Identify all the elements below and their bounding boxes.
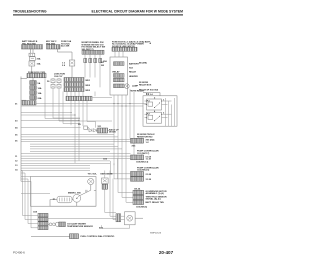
bundle 2 labels [15,104,18,143]
svg-text:5A: 5A [38,82,41,85]
svg-text:C08 (MIC13): C08 (MIC13) [136,162,149,164]
relay RL2 [114,70,137,77]
fuse chain F6b [57,79,61,88]
svg-text:BATTERY: BATTERY [129,63,139,66]
connector CN7 row1 [64,78,91,82]
emergency switch enclosure [31,177,97,207]
wires to governor connectors [118,193,133,203]
wire plug down [105,171,116,217]
vertical trunk wires mid [114,95,126,202]
connector CN9 [98,126,120,133]
buzzer box U3 [125,212,136,225]
svg-text:20A: 20A [38,97,42,100]
svg-text:MD2: MD2 [86,85,91,87]
connector CN14 [133,187,144,194]
dash marks [85,190,88,192]
connector CN5 [27,73,46,77]
diode D3 [94,129,97,132]
relay RL1 [114,62,140,66]
relay pin labels [154,98,165,115]
sensor ST1 label [67,222,93,227]
connector CN4 fuse box [112,47,137,51]
CN4 pin wires down [115,51,123,57]
svg-text:CN-24: CN-24 [134,187,141,190]
relay K2 [147,112,162,123]
terminal T1 [49,222,59,226]
wire buzzer bottom [102,225,130,228]
wire stubs from CN1 down [31,49,34,53]
svg-text:KEROSENE: KEROSENE [101,174,114,176]
wire stubs fuse stack [32,85,34,101]
wire solenoid up [90,185,92,191]
svg-text:20-407: 20-407 [159,250,174,255]
connector CN16 [133,200,144,204]
svg-text:LAMP: LAMP [132,84,139,87]
relay K1 [147,99,162,110]
svg-text:TROUBLESHOOTING: TROUBLESHOOTING [13,10,47,14]
svg-text:ELECTRICAL CIRCUIT DIAGRAM FOR: ELECTRICAL CIRCUIT DIAGRAM FOR W MODE SY… [92,10,184,14]
wires into bottom stack [23,216,39,228]
connector pin b4 [99,58,108,62]
wire switch bottom [50,191,96,207]
connector CN6 [22,101,36,105]
CN12 label [146,174,152,181]
row two wire [31,235,70,237]
CN15 label [136,196,167,208]
svg-text:31-38: 31-38 [146,179,152,181]
fuse F1 [29,61,41,66]
fuse box label [112,40,151,47]
svg-text:PC400-6: PC400-6 [13,251,25,255]
connector pin b3 [94,58,97,62]
wire bundle 2 [21,135,131,152]
svg-text:C06 C07: C06 C07 [54,76,63,78]
wire bundle 4 [21,176,31,178]
svg-text:30A: 30A [37,58,41,61]
connector CN1 battery relay [22,45,43,49]
svg-text:ASSEMBLY (1)-(6): ASSEMBLY (1)-(6) [146,192,164,195]
CN30 pin wires down [71,101,96,164]
wire buzzer out [135,217,143,219]
connector CN17 [38,213,48,217]
svg-text:MD1: MD1 [86,80,91,82]
connector CN7 row3 [64,88,91,92]
connector pin b2 [89,58,92,62]
resistor R1 [53,196,72,203]
svg-text:TVC SOL: TVC SOL [88,174,98,176]
svg-text:RESISTOR R02: RESISTOR R02 [137,137,153,139]
wire D1 to CN7 [71,66,73,78]
diode D2 [89,129,92,132]
tall box left label [101,62,105,67]
connector CN11 [131,151,160,164]
plug P1 [102,184,107,189]
connector CN19 [38,222,48,226]
wire to emergency switch row [21,193,50,195]
connector CN13 [131,177,144,182]
svg-text:SWP02123: SWP02123 [150,233,162,235]
svg-text:RELAY: RELAY [113,70,121,73]
svg-text:RELAY BOX: RELAY BOX [139,83,152,86]
wire from CN2 down and right [58,49,73,60]
CN7 title [54,74,65,78]
horn HN1 [124,84,144,93]
sensor row wire [48,223,49,225]
CN3 pin wires down [85,54,100,58]
relay RL3 [114,75,139,82]
diode D1 [69,60,75,66]
elbow wires into CN12 [111,156,131,179]
svg-text:EMERG. SW.: EMERG. SW. [68,192,81,194]
key switch side note [61,40,72,47]
svg-text:TEMPERATURE SENSOR: TEMPERATURE SENSOR [67,225,93,228]
left bus wire [20,77,22,182]
svg-text:BATT. RELAY TML: BATT. RELAY TML [146,201,165,204]
connector pin b1 [84,58,87,62]
svg-text:11-18: 11-18 [146,159,152,161]
connector CN15 [133,195,144,199]
relay pin dots [146,101,162,119]
relay unit internal wires [162,98,175,126]
connector CN10 [131,134,156,143]
connector CN21 [59,222,66,227]
header rule [13,14,183,15]
wires CN23 to buzzer [121,216,125,219]
connector CN12 [131,167,160,176]
fuse F5 [30,96,42,100]
solenoid label [88,174,98,176]
svg-text:DIODE: DIODE [109,132,116,134]
branch wires from bus [21,113,81,128]
wire resistor leads [50,200,73,207]
svg-text:C02 (MIC21): C02 (MIC21) [137,170,150,172]
connector CN3 monitor panel [82,50,104,54]
vertical trunk wires right of relay box [130,89,134,156]
CN11 label [146,156,152,160]
connector CN30 wide [66,96,92,100]
wire to relay unit top [143,93,160,97]
D1 side label [62,63,66,68]
key switch label [46,41,57,45]
fuse F2 [30,81,41,85]
relay unit label [139,82,159,92]
fuse chain F6a [51,79,55,88]
CN14 label [146,191,167,195]
relay box outline U1 [110,57,128,95]
relay unit outline U2 [143,96,177,126]
junction dots [70,103,130,121]
connector CN20 [38,226,48,230]
svg-text:B6 (M8): B6 (M8) [139,62,147,64]
svg-text:RELAY: RELAY [129,70,137,73]
svg-text:10A: 10A [38,87,42,90]
mode relay MR1 [102,178,109,183]
connector CN22 [70,234,79,239]
wire bundle 1 [21,97,147,106]
relay unit pin ticks [145,101,147,118]
staircase wires from CN5 branch [45,78,112,124]
svg-text:ACC BR: ACC BR [61,45,70,48]
svg-text:C09 (MIC5): C09 (MIC5) [136,207,147,209]
rotary switch SW1 [73,194,81,202]
connector CN7 row2 [64,83,91,87]
slow blow fuse SB1 [29,53,35,56]
svg-text:FUEL CONTROL DIAL POTENTIO: FUEL CONTROL DIAL POTENTIO [81,235,115,238]
svg-text:10A: 10A [37,63,41,66]
svg-text:MD3: MD3 [86,90,91,92]
fusible link FL1 [30,57,41,61]
monitor panel label [82,41,107,51]
wire J1 row [87,128,111,131]
staircase to bottom stack [21,171,31,228]
fuse F4 [30,91,42,95]
wire fuse to CN5 [31,66,33,73]
bundle 3 labels [15,156,18,172]
solenoid SV1 [88,178,94,184]
CN10 label [146,140,155,144]
battery label [22,40,38,45]
wire bundle 3 [21,154,131,171]
svg-text:C01 (MIC17): C01 (MIC17) [137,153,150,155]
connector CN2 key switch [47,45,61,49]
CN7 inter-row stubs [67,82,83,97]
fuse F3 [30,86,42,90]
wires into CN23 [48,179,116,220]
svg-text:RELAY 5P X03 X04: RELAY 5P X03 X04 [139,89,159,92]
connector CN23 [116,214,121,222]
svg-text:SIGNAL (A)-(C): SIGNAL (A)-(C) [146,198,162,201]
node J1 [78,124,87,130]
wire CN5 to fuse stack [21,78,34,81]
svg-text:10A: 10A [38,92,42,95]
svg-text:HEATER: HEATER [129,75,138,78]
wire switch to solenoid diagonal [80,190,91,195]
CN3 pin wires continue [85,63,100,96]
relay RL4 [114,84,139,88]
connector CN18 [38,218,48,222]
svg-text:21-28: 21-28 [146,174,152,176]
